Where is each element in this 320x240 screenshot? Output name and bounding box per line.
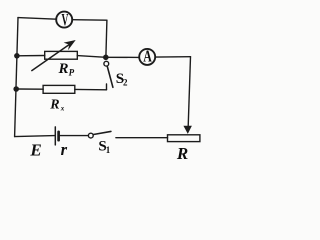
variable resistor RP body — [45, 51, 78, 59]
svg-text:R: R — [58, 61, 69, 77]
label Rx — [49, 98, 65, 113]
label RP — [58, 61, 75, 78]
resistor Rx body — [43, 85, 75, 93]
svg-text:V: V — [61, 10, 68, 29]
ammeter A — [139, 48, 155, 67]
wire bottom-left corner to battery — [15, 136, 55, 137]
svg-text:P: P — [69, 68, 75, 78]
label R — [176, 144, 188, 163]
wire Rx stub up to S2 open contact — [106, 84, 108, 90]
node junction dot at S2 top — [103, 55, 109, 61]
wire Rx right terminal — [75, 88, 107, 90]
wire right vertical down to rheostat slider — [188, 57, 190, 127]
slider arrow onto rheostat R — [183, 126, 192, 134]
wire node to ammeter — [106, 56, 139, 58]
label r — [61, 140, 68, 159]
wire S1 to rheostat R left terminal — [116, 137, 168, 139]
switch S1 blade — [93, 131, 111, 134]
switch S2 contact circle — [104, 61, 109, 66]
svg-text:R: R — [176, 144, 188, 163]
label S2 — [116, 71, 128, 88]
wire top-left corner to voltmeter — [18, 18, 56, 20]
battery E long plate — [54, 127, 56, 145]
node junction dot left upper — [14, 53, 20, 59]
label E — [29, 140, 41, 159]
wire ammeter to top-right corner — [155, 56, 190, 58]
wire battery to switch S1 — [60, 135, 88, 137]
voltmeter V — [56, 10, 72, 29]
battery E short plate — [57, 132, 60, 140]
svg-text:R: R — [49, 98, 59, 113]
wire node to RP left terminal — [17, 55, 45, 57]
label S1 — [98, 139, 110, 155]
svg-text:1: 1 — [106, 145, 111, 155]
switch S2 blade — [107, 66, 113, 87]
wire node to Rx left terminal — [16, 88, 43, 90]
rheostat R body — [168, 135, 200, 142]
wire RP right terminal to node — [77, 56, 106, 58]
svg-text:A: A — [143, 48, 152, 67]
wire right side of voltmeter loop down to node — [106, 20, 107, 56]
switch S1 contact circle — [88, 133, 93, 138]
wire voltmeter to top-right corner — [72, 19, 107, 22]
svg-text:E: E — [29, 140, 41, 159]
svg-text:2: 2 — [123, 77, 128, 87]
svg-text:r: r — [61, 140, 68, 159]
node junction dot left lower — [13, 86, 19, 92]
svg-text:x: x — [60, 104, 65, 112]
arrow over RP — [32, 40, 76, 71]
wire left vertical main branch — [15, 18, 18, 137]
